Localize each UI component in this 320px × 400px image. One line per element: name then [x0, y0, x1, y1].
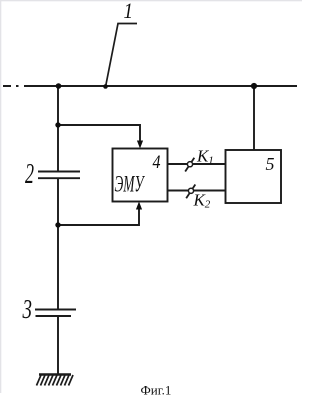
svg-text:1: 1: [124, 0, 134, 23]
svg-text:3: 3: [22, 294, 32, 324]
svg-text:5: 5: [266, 154, 275, 174]
svg-text:Фиг.1: Фиг.1: [141, 383, 172, 398]
svg-text:ЭМУ: ЭМУ: [115, 172, 145, 197]
svg-text:4: 4: [153, 152, 161, 173]
svg-text:2: 2: [25, 159, 34, 190]
